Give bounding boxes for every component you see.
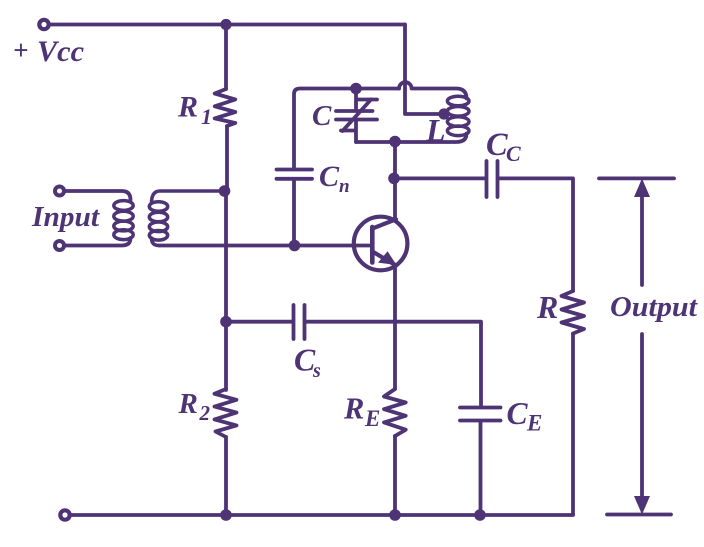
svg-text:s: s xyxy=(312,360,321,382)
output arrow down xyxy=(634,334,650,515)
wire tank top rail hop xyxy=(399,82,467,98)
svg-text:1: 1 xyxy=(201,104,212,129)
label Cs xyxy=(294,343,321,383)
wire bottom rail xyxy=(72,513,574,517)
svg-text:R: R xyxy=(536,289,558,325)
resistor R1 xyxy=(215,89,236,126)
wire collector column xyxy=(393,142,397,221)
wire tank bottom rail xyxy=(356,134,467,143)
svg-text:C: C xyxy=(506,141,521,166)
node bottom RE xyxy=(389,509,401,521)
label RE xyxy=(343,392,380,432)
wire Cs to CE xyxy=(307,322,482,405)
transformer secondary xyxy=(149,191,221,246)
wire CC to R xyxy=(500,178,574,291)
label R xyxy=(536,289,558,325)
transformer primary xyxy=(114,201,133,240)
svg-text:R: R xyxy=(177,91,198,124)
inductor L xyxy=(447,96,469,135)
wire bias column xyxy=(224,191,228,321)
svg-text:R: R xyxy=(178,388,198,420)
terminal input bottom xyxy=(55,241,64,250)
wire R1 top lead xyxy=(224,25,228,90)
svg-text:C: C xyxy=(486,127,508,163)
wire Cs horizontal xyxy=(226,320,292,324)
node collector / CC xyxy=(388,173,400,185)
capacitor CC xyxy=(487,161,498,197)
label L xyxy=(425,112,446,148)
svg-text:R: R xyxy=(343,392,364,426)
capacitor Cs xyxy=(294,305,305,339)
output arrow up xyxy=(634,179,650,286)
wire R2 top lead xyxy=(224,322,228,390)
wire top rail xyxy=(51,23,406,27)
capacitor Cn xyxy=(277,170,313,245)
label R2 xyxy=(178,388,211,425)
output top bar xyxy=(599,176,674,180)
label Input xyxy=(31,202,100,233)
wire tank left rail xyxy=(294,89,399,168)
wire R bottom lead xyxy=(571,334,575,515)
wire emitter column xyxy=(393,268,397,389)
label CC xyxy=(486,127,521,166)
terminal bottom left xyxy=(60,510,69,519)
node R1 / transformer secondary xyxy=(219,185,231,197)
capacitor C variable xyxy=(336,89,377,143)
wire base xyxy=(159,244,371,248)
transistor Q1 xyxy=(354,217,408,271)
svg-text:Output: Output xyxy=(610,292,698,323)
label R1 xyxy=(177,91,212,130)
resistor RE xyxy=(384,389,406,436)
wire Vcc drop and L tap xyxy=(405,25,443,115)
svg-text:Input: Input xyxy=(31,202,100,233)
node bottom CE xyxy=(474,509,486,521)
svg-text:+: + xyxy=(13,35,28,65)
svg-text:E: E xyxy=(364,406,380,431)
node Cn base junction xyxy=(289,240,301,252)
label +Vcc xyxy=(13,35,84,68)
svg-text:C: C xyxy=(312,100,332,132)
svg-text:C: C xyxy=(507,396,529,431)
node C top xyxy=(350,83,362,95)
node Cs junction xyxy=(220,316,232,328)
svg-text:L: L xyxy=(425,112,446,148)
terminal input top xyxy=(55,187,64,196)
label C xyxy=(312,100,332,132)
wire input top xyxy=(66,191,131,200)
wire RE bottom lead xyxy=(393,436,397,515)
svg-text:C: C xyxy=(319,160,340,193)
resistor R2 xyxy=(215,389,237,437)
terminal +Vcc xyxy=(39,20,48,29)
svg-text:2: 2 xyxy=(199,401,211,425)
label CE xyxy=(507,396,543,436)
capacitor CE xyxy=(460,408,501,516)
svg-text:n: n xyxy=(339,176,350,197)
resistor R xyxy=(562,291,585,334)
wire input bottom xyxy=(66,238,131,246)
output bottom bar xyxy=(607,513,671,517)
node tank bottom / collector xyxy=(389,136,401,148)
svg-text:Vcc: Vcc xyxy=(37,35,84,68)
wire R1 bottom lead xyxy=(225,126,229,190)
node L tap xyxy=(438,108,449,119)
wire collector to CC xyxy=(394,176,485,180)
node top rail / R1 xyxy=(220,19,231,30)
label Output xyxy=(610,292,698,323)
wire R2 bottom lead xyxy=(224,437,228,515)
label Cn xyxy=(319,160,350,197)
node bottom R2 xyxy=(220,509,232,521)
svg-text:E: E xyxy=(526,411,542,436)
